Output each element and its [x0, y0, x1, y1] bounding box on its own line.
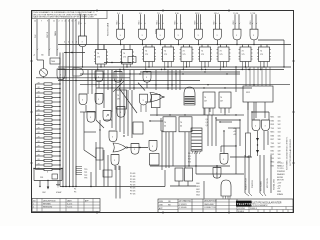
component U33 pins bottom	[248, 102, 265, 118]
svg-text:P7 GS: P7 GS	[130, 193, 136, 195]
latch U16	[217, 45, 231, 71]
svg-text:KB 3: KB 3	[139, 21, 141, 25]
svg-text:REVISED: REVISED	[43, 204, 52, 206]
component U51	[150, 154, 160, 166]
component U39	[175, 168, 183, 181]
wire net N21	[104, 150, 108, 187]
svg-text:MX9: MX9	[271, 147, 275, 149]
gate U55	[114, 72, 122, 83]
wire net X10	[149, 120, 163, 121]
svg-text:MOTOR: MOTOR	[277, 180, 284, 182]
vertical wire M6	[133, 70, 135, 90]
horizontal bus net B2	[58, 66, 291, 68]
latch U11	[120, 45, 134, 71]
input wires gate U2	[117, 13, 124, 30]
svg-text:DESCRIPTION: DESCRIPTION	[204, 201, 217, 203]
wire net X4	[230, 114, 244, 115]
svg-text:2 182440: 2 182440	[179, 207, 187, 209]
wire loop net L1	[33, 168, 62, 181]
wire net X16	[127, 147, 148, 148]
component U31	[203, 92, 215, 108]
gate U38	[220, 154, 228, 165]
horizontal bus net B3	[58, 69, 284, 71]
notes box	[32, 11, 107, 19]
signal label SEND DATA	[156, 28, 158, 34]
left input wire stubs	[37, 19, 58, 56]
vertical wire M7	[155, 70, 157, 90]
svg-text:175: 175	[123, 57, 126, 59]
svg-text:SEND: SEND	[156, 28, 158, 34]
svg-text:4: 4	[76, 42, 77, 44]
wire net N13	[150, 114, 230, 115]
wire net N17	[196, 151, 244, 174]
wire net X26	[228, 128, 240, 147]
resistor R5	[36, 100, 61, 103]
wire net N12	[80, 105, 96, 112]
svg-text:193: 193	[117, 99, 120, 101]
bus stub labels	[64, 42, 77, 44]
vertical bus wire V1	[59, 53, 61, 187]
gate U20	[73, 68, 83, 76]
svg-text:74: 74	[180, 122, 182, 124]
svg-text:11: 11	[53, 21, 55, 23]
svg-text:KEYBOARD: KEYBOARD	[260, 180, 263, 191]
notes column right	[277, 163, 286, 196]
svg-text:KB6: KB6	[271, 135, 274, 137]
gate U34	[252, 120, 260, 131]
svg-text:PRINTER: PRINTER	[277, 171, 286, 173]
svg-text:KB 2: KB 2	[117, 21, 119, 25]
svg-text:Q1: Q1	[206, 122, 208, 124]
wire net N3	[60, 186, 165, 187]
svg-text:+5: +5	[33, 55, 35, 57]
resistor R7	[36, 109, 61, 112]
resistor R10	[36, 123, 61, 126]
component U50	[133, 122, 143, 134]
wire net X1	[223, 130, 224, 153]
latch U15	[198, 45, 212, 71]
svg-text:PRINTER: PRINTER	[252, 179, 254, 188]
vertical wire M10	[175, 70, 177, 90]
wire net X9	[188, 132, 189, 167]
svg-text:4: 4	[68, 42, 69, 44]
drawing border frame	[30, 9, 295, 214]
nand gate U8	[233, 29, 241, 40]
svg-text:105: 105	[278, 135, 281, 137]
svg-text:W1: W1	[188, 156, 191, 158]
component U53	[103, 170, 112, 177]
svg-text:KB5: KB5	[271, 165, 274, 167]
wire net N18	[221, 146, 236, 174]
svg-text:GS0: GS0	[196, 183, 200, 185]
input wires gate U3	[139, 13, 146, 30]
input wires gate U8	[233, 13, 240, 30]
gate U35	[262, 120, 270, 131]
wire net X25	[215, 117, 232, 146]
wire net N5	[116, 166, 120, 199]
svg-text:W2: W2	[188, 159, 191, 161]
wire net X14	[95, 142, 97, 187]
svg-text:2: 2	[59, 21, 60, 23]
resistor R8	[36, 114, 61, 117]
svg-text:KB1: KB1	[271, 150, 274, 152]
vertical bus wire V3	[65, 19, 67, 187]
svg-text:TELETYPE MODULAR INTER: TELETYPE MODULAR INTER	[250, 201, 282, 204]
svg-text:MX4: MX4	[271, 162, 275, 164]
signal label net S4	[157, 21, 159, 25]
svg-text:P6 GS: P6 GS	[130, 190, 136, 192]
svg-text:KB 6: KB 6	[195, 21, 197, 25]
svg-text:7 8: 7 8	[157, 13, 160, 15]
svg-text:7: 7	[75, 21, 76, 23]
svg-text:7404: 7404	[51, 61, 55, 63]
svg-text:103: 103	[278, 128, 281, 130]
svg-text:GS4: GS4	[196, 195, 200, 197]
svg-text:100: 100	[278, 154, 281, 156]
svg-text:ISSUE 4: ISSUE 4	[250, 208, 257, 210]
horizontal bus net B7	[80, 84, 290, 85]
vertical wire M11	[179, 70, 181, 90]
svg-text:KB 1: KB 1	[79, 21, 81, 25]
bottom left tiny labels	[74, 189, 76, 194]
svg-text:7: 7	[41, 21, 42, 23]
vertical bus wire V4	[69, 19, 71, 187]
vertical wire M4	[111, 70, 113, 90]
wire U4 output	[160, 40, 161, 45]
gate U27	[149, 141, 157, 152]
wire U8 output	[236, 40, 237, 45]
svg-text:104: 104	[278, 132, 281, 134]
wire net X28	[37, 56, 44, 69]
gate U24	[140, 94, 148, 112]
svg-text:1 2: 1 2	[79, 13, 82, 15]
svg-text:GS3: GS3	[196, 192, 200, 194]
svg-text:DATA: DATA	[54, 31, 57, 36]
vertical wire M8	[167, 70, 169, 90]
svg-text:15 16: 15 16	[233, 13, 238, 15]
wire net X20	[91, 70, 93, 94]
input wires gate U4	[157, 13, 164, 30]
svg-text:1 181823: 1 181823	[179, 204, 187, 206]
svg-text:Q2: Q2	[206, 125, 208, 127]
component U33	[243, 86, 273, 102]
vertical wire N6	[131, 90, 133, 138]
svg-text:74: 74	[242, 51, 244, 53]
svg-text:GS2: GS2	[196, 189, 200, 191]
svg-text:74: 74	[201, 51, 203, 53]
net label column right mid	[271, 117, 275, 168]
svg-text:5919WD: 5919WD	[238, 208, 246, 210]
wire net L2	[39, 181, 40, 188]
diagonal wire D1	[113, 81, 124, 92]
gate U22	[95, 94, 103, 105]
svg-text:106: 106	[278, 139, 281, 141]
ground symbol G1	[56, 181, 60, 188]
bus label ticks left	[59, 21, 76, 23]
input wires gate U9	[250, 13, 257, 30]
gate U45	[57, 69, 65, 80]
svg-text:107: 107	[220, 101, 223, 103]
svg-text:DESCRIPTION: DESCRIPTION	[43, 201, 56, 203]
svg-text:W0: W0	[188, 153, 191, 155]
signal label net S1	[79, 21, 81, 25]
wire net X18	[84, 112, 96, 158]
current source arrow	[47, 181, 49, 190]
diagonal wire D3	[119, 88, 137, 113]
vertical wire M5	[129, 70, 131, 90]
svg-text:MOTOR ON: MOTOR ON	[267, 177, 269, 188]
svg-text:102: 102	[278, 162, 281, 164]
component U33 pins	[246, 67, 270, 86]
resistor R9	[36, 118, 61, 121]
svg-text:04: 04	[180, 126, 182, 128]
svg-text:175: 175	[145, 54, 148, 56]
net label vertical KEYBOARD	[260, 180, 263, 191]
component U31 pins	[205, 108, 213, 115]
svg-text:74: 74	[145, 51, 147, 53]
wire U6 output	[198, 40, 199, 45]
svg-text:74: 74	[123, 53, 125, 55]
wire net N16	[150, 165, 180, 167]
wire net X19	[87, 70, 89, 94]
gate U42	[221, 180, 231, 199]
vertical wire M15	[123, 70, 125, 90]
svg-text:DRN: DRN	[159, 201, 164, 203]
wire net X11	[203, 181, 205, 199]
gate U25	[109, 131, 117, 142]
net labels bottom center	[196, 183, 200, 197]
svg-text:17 18: 17 18	[250, 13, 255, 15]
component U32 pins	[221, 108, 229, 113]
svg-text:GND: GND	[277, 191, 282, 193]
svg-text:GS1: GS1	[196, 186, 200, 188]
component U29	[116, 90, 127, 109]
svg-text:RECEIVE DATA: RECEIVE DATA	[107, 22, 110, 36]
bus junction dots B3	[119, 69, 249, 70]
svg-text:KB2: KB2	[271, 120, 274, 122]
diode CR1	[256, 131, 259, 156]
wire net X2	[211, 115, 213, 146]
svg-text:5: 5	[68, 21, 69, 23]
net list text block center	[130, 173, 136, 195]
wire net X23	[180, 165, 230, 166]
svg-text:TP2: TP2	[84, 175, 87, 177]
svg-text:9: 9	[47, 21, 48, 23]
vertical bus wire V6	[75, 19, 77, 187]
connector J1	[191, 128, 202, 151]
gate U48	[103, 111, 111, 122]
svg-text:SPARE: SPARE	[277, 193, 284, 196]
wire net N20	[145, 102, 157, 116]
svg-text:READER: READER	[277, 173, 285, 176]
svg-text:74: 74	[164, 51, 166, 53]
gate U56	[143, 72, 151, 89]
svg-text:74: 74	[220, 97, 222, 99]
gate U23	[79, 94, 87, 105]
wire U3 output	[142, 40, 143, 45]
horizontal bus net B4	[80, 73, 240, 74]
component U30	[152, 94, 161, 107]
component U58	[128, 57, 136, 63]
net label vertical SIGNAL	[273, 178, 276, 190]
svg-text:RD7: RD7	[271, 139, 275, 141]
svg-text:P6: P6	[74, 192, 76, 194]
component U19	[50, 58, 60, 64]
svg-text:4: 4	[64, 42, 65, 44]
svg-text:RD2: RD2	[271, 154, 275, 156]
resistor R17	[36, 154, 61, 157]
resistor R11	[36, 127, 61, 130]
vertical wire N3	[119, 90, 121, 132]
svg-text:175: 175	[183, 54, 186, 56]
vertical wire N2	[115, 90, 117, 130]
svg-text:SALE WITHOUT WRITTEN PERMISSIO: SALE WITHOUT WRITTEN PERMISSION OF TELET…	[33, 16, 94, 19]
nand gate U3	[139, 29, 147, 40]
svg-text:KB 7: KB 7	[214, 21, 216, 25]
connector J1 pin marks	[192, 151, 201, 154]
gate U21	[95, 71, 103, 88]
svg-text:Q0: Q0	[206, 119, 208, 121]
nand gate U7	[213, 29, 221, 40]
svg-text:3: 3	[62, 21, 63, 23]
resistor R14	[36, 141, 61, 144]
vertical wire M13	[115, 70, 117, 90]
wire net X7	[162, 131, 166, 170]
signal label net S3	[139, 21, 141, 25]
transistor Q1	[40, 69, 48, 78]
svg-text:CARD ASSY: CARD ASSY	[204, 203, 215, 206]
svg-text:13 14: 13 14	[214, 13, 219, 15]
svg-text:6: 6	[72, 21, 73, 23]
net label column right mid 2	[278, 117, 281, 168]
svg-text:2: 2	[33, 207, 34, 209]
wire U9 output	[253, 40, 254, 45]
wire net Y1	[245, 155, 271, 196]
gate U26	[111, 155, 119, 171]
wire net LT2	[98, 19, 104, 50]
wire net N4	[164, 170, 166, 187]
svg-text:108: 108	[278, 147, 281, 149]
wire net N11	[103, 90, 105, 108]
nand gate U6	[195, 29, 203, 40]
svg-text:KB 9: KB 9	[250, 21, 252, 25]
component U37	[179, 117, 192, 132]
resistor R18	[36, 159, 61, 162]
svg-text:P2 GS: P2 GS	[130, 179, 136, 181]
component U36	[163, 117, 176, 132]
svg-text:TP3: TP3	[84, 178, 87, 180]
logo	[236, 201, 253, 207]
svg-text:TX4: TX4	[271, 128, 274, 130]
svg-text:CONNECTOR: CONNECTOR	[204, 207, 216, 209]
resistor R15	[36, 145, 61, 148]
svg-text:74: 74	[97, 53, 99, 55]
svg-text:9312: 9312	[246, 92, 250, 94]
svg-text:00: 00	[164, 126, 166, 128]
net label vertical MOTOR	[267, 177, 269, 188]
svg-text:74: 74	[117, 95, 119, 97]
resistor R6	[36, 105, 61, 108]
wire net N14	[161, 118, 163, 131]
svg-text:TX8: TX8	[271, 143, 274, 145]
svg-text:3 4: 3 4	[117, 13, 120, 15]
svg-text:GLITTER MODULAR RECEIVER: GLITTER MODULAR RECEIVER	[289, 139, 292, 166]
signal label RECEIVE DATA	[107, 22, 110, 36]
horizontal bus net B1	[58, 44, 291, 46]
resistor R21	[40, 172, 58, 180]
input wires gate U5	[175, 13, 182, 30]
vertical wire M14	[119, 70, 121, 90]
svg-text:175: 175	[97, 57, 100, 59]
svg-text:74: 74	[260, 51, 262, 53]
svg-text:TP0: TP0	[84, 169, 87, 171]
svg-text:102: 102	[278, 124, 281, 126]
pin labels U31 area	[206, 119, 208, 127]
nand gate U5	[175, 29, 183, 40]
svg-text:OSC IN: OSC IN	[47, 31, 49, 38]
svg-text:74: 74	[220, 51, 222, 53]
vertical border text 2	[289, 139, 292, 166]
vertical wire M3	[107, 70, 109, 90]
ladder left rail	[35, 84, 37, 170]
connector comb J2	[76, 166, 82, 175]
wire net TR1	[258, 40, 285, 68]
vertical wire M1	[95, 70, 97, 90]
svg-text:6: 6	[47, 172, 48, 174]
svg-text:103: 103	[278, 165, 281, 167]
nand gate U2	[117, 29, 125, 40]
wire U5 output	[178, 40, 179, 45]
svg-text:74: 74	[164, 122, 166, 124]
svg-text:101: 101	[278, 158, 281, 160]
svg-text:P5 GS: P5 GS	[130, 188, 136, 190]
svg-text:107: 107	[204, 101, 207, 103]
wire U7 output	[217, 40, 218, 45]
labels under note box	[34, 21, 55, 23]
signal label net S7	[214, 21, 216, 25]
svg-text:9 10: 9 10	[175, 13, 179, 15]
svg-text:JW: JW	[168, 201, 171, 203]
text rows right of U32	[233, 128, 237, 136]
diagonal wire D2	[138, 83, 145, 91]
input wire extra U4	[160, 14, 162, 29]
svg-text:KEYBD: KEYBD	[277, 177, 284, 179]
label OSC	[42, 192, 62, 194]
svg-text:4: 4	[65, 21, 66, 23]
wire net X13	[216, 165, 217, 178]
vertical wire M9	[171, 70, 173, 90]
wire net X17	[118, 166, 120, 171]
vertical wire M12	[111, 70, 113, 112]
svg-text:READER RUN: READER RUN	[245, 177, 248, 190]
svg-text:4: 4	[72, 42, 73, 44]
svg-text:P4 GS: P4 GS	[130, 185, 136, 187]
wire net X22	[104, 62, 131, 63]
gate U47	[87, 112, 95, 123]
wire net LT1	[64, 52, 85, 53]
latch U14	[180, 45, 194, 71]
vertical wire N5	[127, 90, 129, 136]
input wires gate U1	[79, 13, 86, 36]
svg-text:SIGNAL GND: SIGNAL GND	[273, 178, 276, 190]
horizontal bus net B9	[140, 71, 240, 72]
component U40	[185, 168, 193, 181]
svg-text:175: 175	[260, 54, 263, 56]
wire net N15	[169, 132, 185, 168]
input wire extra U6	[198, 14, 200, 29]
nand gate U4	[157, 29, 165, 40]
svg-text:KB 8: KB 8	[233, 21, 235, 25]
